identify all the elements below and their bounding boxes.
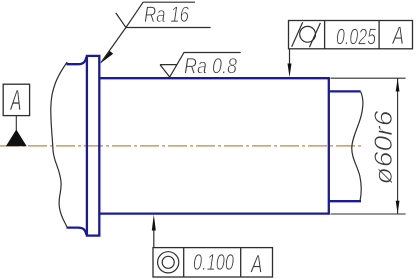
svg-text:0.025: 0.025	[336, 24, 376, 50]
dimension line	[397, 78, 399, 213]
svg-text:A: A	[250, 251, 263, 279]
frame cell dividers	[325, 21, 380, 49]
small cylinder bottom edge	[329, 200, 361, 202]
wire: left break line (wavy)	[51, 62, 67, 228]
roughness symbol Ra 16 leader	[101, 28, 126, 63]
svg-text:0.100: 0.100	[193, 249, 234, 275]
extension line bottom	[331, 213, 406, 215]
leader from cylindricity frame	[289, 49, 291, 70]
left cylinder bottom edge	[67, 228, 87, 235]
leader arrow (up)	[152, 215, 156, 231]
leader arrow (down)	[288, 64, 292, 78]
wire: right break line (wavy)	[352, 92, 363, 201]
dimension arrow top	[396, 78, 400, 91]
left cylinder top edge	[67, 57, 87, 64]
svg-text:Ra 0.8: Ra 0.8	[184, 54, 238, 79]
svg-text:ø60r6: ø60r6	[370, 110, 398, 184]
svg-text:A: A	[9, 85, 21, 117]
roughness symbol Ra 16 leader arrow	[100, 51, 113, 64]
svg-text:Ra 16: Ra 16	[144, 2, 190, 27]
centerline (axis)	[0, 145, 362, 147]
extension line top	[331, 77, 406, 79]
datum stem	[15, 116, 17, 131]
datum feature frame A	[3, 84, 29, 115]
feature control frame: cylindricity 0.025 A	[289, 21, 413, 49]
shaft body outline (top, right end, bottom)	[99, 78, 328, 213]
concentricity symbol	[158, 252, 179, 273]
roughness symbol Ra 16 shelf	[126, 27, 211, 29]
dimension arrow bottom	[396, 201, 400, 214]
frame cell dividers	[184, 248, 241, 277]
small cylinder top edge	[329, 90, 361, 92]
cylindricity symbol	[300, 26, 316, 42]
flange outline	[87, 56, 99, 236]
feature control frame: concentricity 0.100 A	[153, 248, 273, 277]
datum triangle	[6, 130, 27, 147]
svg-text:A: A	[391, 22, 404, 50]
roughness symbol Ra 16 check mark	[116, 2, 195, 27]
leader from concentricity frame	[153, 224, 155, 248]
roughness symbol Ra 0.8 (material removal)	[160, 53, 241, 78]
